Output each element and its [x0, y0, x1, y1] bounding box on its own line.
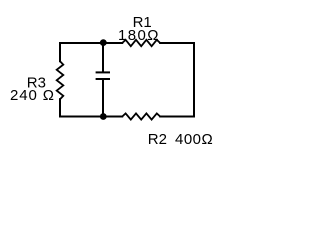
- node junction top: [100, 39, 107, 46]
- svg-text:R2: R2: [148, 131, 167, 148]
- wire top-left segment: [60, 42, 122, 44]
- svg-text:400Ω: 400Ω: [175, 131, 213, 148]
- wire right side: [193, 43, 195, 117]
- resistor R1: [122, 40, 160, 46]
- wire left lower segment: [59, 99, 61, 116]
- svg-text:240 Ω: 240 Ω: [10, 87, 55, 104]
- resistor R2: [122, 113, 160, 119]
- node junction bottom: [100, 113, 107, 120]
- wire left upper segment: [59, 43, 61, 61]
- svg-text:180Ω: 180Ω: [118, 27, 160, 44]
- wire capacitor top lead: [102, 43, 104, 73]
- resistor R3: [57, 61, 64, 99]
- wire capacitor bottom lead: [102, 79, 104, 117]
- wire bottom-right segment: [160, 116, 194, 118]
- wire bottom-left segment: [60, 116, 122, 118]
- capacitor C1: [96, 72, 110, 79]
- wire top-right segment: [160, 42, 194, 44]
